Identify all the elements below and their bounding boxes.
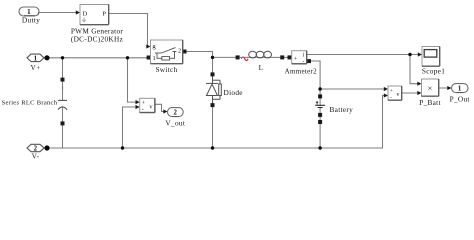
wire VM v to P_Batt in2	[402, 92, 418, 94]
port diode bottom	[211, 103, 215, 107]
svg-text:P_Out: P_Out	[450, 94, 470, 103]
wire V_out output	[155, 104, 165, 111]
arrow into P_Out port	[447, 86, 451, 90]
node battery-VM junction	[318, 87, 321, 90]
wire Switch out to node	[187, 52, 237, 58]
svg-text:-: -	[142, 107, 144, 113]
svg-text:D: D	[83, 11, 88, 18]
arrow into VM1 minus	[136, 105, 140, 109]
block Ammeter2	[285, 51, 318, 76]
arrow into VM2 minus	[384, 93, 388, 97]
diode D1	[206, 76, 243, 103]
wire node to P_Batt in1	[410, 55, 417, 84]
svg-text:L: L	[259, 63, 264, 72]
svg-text:-: -	[390, 95, 392, 101]
arrow into Scope1	[418, 52, 422, 56]
svg-text:Series RLC Branch: Series RLC Branch	[2, 99, 58, 106]
arrow into P_Batt in1	[417, 82, 421, 86]
port ammeter right	[307, 59, 311, 63]
port V-	[27, 144, 44, 160]
wire battery squares gap	[319, 117, 321, 120]
port ammeter left	[288, 55, 292, 59]
battery plus arrow	[316, 102, 318, 105]
arrow into Switch g	[146, 44, 150, 48]
block product P_Batt	[419, 79, 441, 107]
port battery top	[318, 94, 322, 98]
port RLC top	[61, 78, 65, 82]
svg-text:v: v	[149, 103, 153, 110]
port squares	[61, 50, 323, 126]
outport V_out	[165, 108, 185, 128]
port switch in1	[147, 56, 151, 60]
arrowheads	[76, 10, 452, 113]
arrow into VM1 plus	[136, 100, 140, 104]
node RLC junction	[61, 56, 64, 59]
svg-text:2: 2	[178, 48, 182, 55]
node bus battery junction	[318, 146, 321, 149]
red marker RLC	[62, 86, 64, 90]
svg-text:V+: V+	[31, 63, 41, 72]
svg-text:P_Batt: P_Batt	[419, 98, 441, 107]
wire ammeter i to scope node	[307, 54, 419, 56]
svg-text:g: g	[152, 43, 156, 50]
port RLC bottom	[61, 121, 65, 125]
wire Dutty to PWM	[40, 12, 78, 14]
wire battery internals top	[319, 98, 321, 105]
node diode junction	[211, 56, 214, 59]
node Vout+ junction	[126, 56, 129, 59]
port battery bottom	[318, 113, 322, 117]
wire RLC branch top	[62, 58, 64, 78]
node bus Vout- junction	[121, 146, 124, 149]
wire PWM P to Switch g	[109, 14, 150, 47]
svg-text:Battery: Battery	[330, 105, 354, 114]
arrow into V_out port	[163, 109, 167, 113]
svg-text:Switch: Switch	[155, 65, 177, 74]
svg-text:V-: V-	[32, 151, 40, 160]
wire battery node to VM plus	[320, 88, 384, 90]
port battery wire-end	[318, 120, 322, 124]
node bus diode junction	[211, 146, 214, 149]
port switch out2	[183, 50, 187, 54]
node V+ dot	[44, 55, 49, 60]
port inductor right	[280, 55, 284, 59]
port inductor left	[236, 55, 240, 59]
red marker L	[241, 57, 248, 60]
wire bottom bus	[44, 96, 384, 149]
svg-text:v: v	[396, 92, 399, 98]
inport Dutty	[19, 7, 40, 25]
wire V+ rail	[44, 57, 147, 59]
block Voltage Measurement V_out	[140, 98, 155, 113]
wire V_out minus branch	[123, 107, 137, 148]
wire V_out plus branch	[128, 58, 137, 102]
node scope junction	[408, 53, 411, 56]
svg-text:Dutty: Dutty	[22, 16, 40, 25]
wire diode bottom	[212, 107, 214, 148]
battery B1	[315, 102, 353, 114]
wire RLC branch bottom	[62, 126, 64, 149]
svg-text:+: +	[390, 88, 393, 94]
small gray arrow inside PWM	[82, 18, 85, 22]
svg-text:P: P	[102, 11, 106, 18]
svg-text:Ammeter2: Ammeter2	[285, 68, 318, 76]
svg-text:×: ×	[427, 83, 432, 93]
wire ammeter minus to battery	[311, 61, 320, 95]
svg-text:+: +	[142, 101, 146, 107]
block Voltage Measurement VM2	[388, 86, 402, 101]
svg-text:1: 1	[34, 55, 38, 62]
svg-text:-: -	[302, 58, 304, 65]
svg-text:1: 1	[153, 55, 157, 62]
capacitor Series RLC Branch	[2, 82, 67, 122]
wire battery internals bottom	[319, 108, 321, 113]
arrow into VM2 plus	[384, 87, 388, 91]
port V+	[27, 54, 44, 72]
svg-text:Scope1: Scope1	[422, 66, 445, 75]
wire battery to bus	[319, 124, 321, 148]
svg-text:V_out: V_out	[165, 118, 185, 127]
svg-text:+: +	[294, 55, 298, 62]
inductor L	[240, 51, 281, 72]
node V- dot	[44, 145, 49, 150]
svg-text:Diode: Diode	[224, 88, 243, 97]
wire inductor to ammeter	[284, 56, 288, 58]
wire node to diode	[212, 57, 214, 72]
switch icon	[155, 48, 177, 60]
block Scope1	[422, 47, 445, 76]
outport P_Out	[450, 84, 470, 104]
arrow into PWM D	[76, 10, 80, 14]
block Switch	[151, 40, 183, 74]
arrow into P_Batt in2	[417, 91, 421, 95]
svg-text:2: 2	[173, 110, 177, 117]
port diode top	[211, 72, 215, 76]
block PWM Generator U1	[71, 5, 124, 44]
wire P_Batt to P_Out	[439, 87, 448, 89]
svg-text:(DC-DC)20KHz: (DC-DC)20KHz	[71, 35, 124, 44]
svg-text:1: 1	[458, 86, 462, 93]
